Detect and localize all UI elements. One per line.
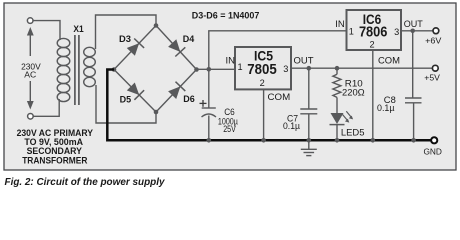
resistor R10 xyxy=(333,70,341,113)
svg-text:1: 1 xyxy=(349,26,354,36)
AC source arrow (double-headed) xyxy=(27,27,34,110)
+5V rail from IC5 OUT xyxy=(291,67,433,69)
svg-text:COM: COM xyxy=(378,55,400,66)
wire: secondary top to bridge top node xyxy=(96,15,157,49)
svg-text:LED5: LED5 xyxy=(341,126,365,137)
svg-text:D6: D6 xyxy=(183,94,195,104)
node dot R10 tap xyxy=(335,66,340,71)
svg-text:D4: D4 xyxy=(183,34,195,44)
transformer X1 secondary coil xyxy=(84,47,96,86)
thick ground bus xyxy=(107,70,431,141)
IC5 box xyxy=(235,47,291,89)
svg-text:IN: IN xyxy=(226,56,236,66)
svg-text:220Ω: 220Ω xyxy=(342,88,365,98)
svg-text:25V: 25V xyxy=(223,124,236,134)
capacitor C7 xyxy=(300,70,317,139)
svg-text:C6: C6 xyxy=(224,107,235,117)
node dot unregulated xyxy=(207,67,212,72)
svg-text:AC: AC xyxy=(24,70,36,80)
svg-text:OUT: OUT xyxy=(294,56,315,66)
C6 plus sign xyxy=(200,100,207,107)
svg-text:TRANSFORMER: TRANSFORMER xyxy=(22,155,87,165)
svg-text:2: 2 xyxy=(369,39,374,49)
wire IC6 COM to ground rail xyxy=(372,50,374,139)
wire: top-left terminal to primary top xyxy=(33,21,60,40)
wire: riser to IC6 IN xyxy=(209,31,347,70)
diode D4 xyxy=(168,39,185,56)
svg-text:+6V: +6V xyxy=(425,35,441,45)
terminal +6V xyxy=(433,28,439,34)
capacitor C8 xyxy=(405,32,422,139)
+6V rail from IC6 OUT xyxy=(401,30,433,32)
diode D5 xyxy=(127,83,144,100)
diode D3 xyxy=(127,39,144,56)
node dot C8 tap xyxy=(410,29,415,34)
wire: bridge right node to IC5 IN xyxy=(197,68,236,70)
capacitor C6 xyxy=(202,71,217,139)
svg-text:3: 3 xyxy=(283,64,288,74)
svg-text:D3: D3 xyxy=(119,34,131,44)
LED5 xyxy=(330,111,354,139)
svg-text:D5: D5 xyxy=(120,94,132,104)
svg-text:COM: COM xyxy=(268,91,291,102)
svg-text:0.1µ: 0.1µ xyxy=(283,121,300,131)
svg-text:7806: 7806 xyxy=(359,24,388,41)
wire IC5 COM to ground rail xyxy=(263,89,265,139)
svg-text:2: 2 xyxy=(260,78,265,88)
svg-text:OUT: OUT xyxy=(404,19,424,29)
bridge wires (diamond) xyxy=(114,26,197,113)
wire: secondary bottom to bridge bottom node xyxy=(96,85,156,123)
svg-text:+5V: +5V xyxy=(424,73,440,83)
node dots bridge xyxy=(112,23,199,114)
diode D6 xyxy=(168,82,185,99)
terminal +5V xyxy=(432,65,438,71)
transformer core xyxy=(75,35,79,105)
transformer X1 primary coil xyxy=(57,38,70,101)
svg-text:0.1µ: 0.1µ xyxy=(377,103,395,113)
label transformer description xyxy=(17,128,94,165)
ground symbol (under C7) xyxy=(301,141,317,156)
svg-text:1: 1 xyxy=(237,62,242,72)
IC6 box xyxy=(347,10,402,50)
svg-text:X1: X1 xyxy=(73,24,83,34)
node dot C7 tap xyxy=(307,66,312,71)
terminal GND xyxy=(431,137,437,143)
ground rail junction dots xyxy=(207,138,416,143)
svg-text:3: 3 xyxy=(394,27,399,37)
svg-text:GND: GND xyxy=(423,147,442,157)
terminal: AC input bottom xyxy=(28,114,34,120)
svg-text:7805: 7805 xyxy=(247,61,277,78)
svg-text:Fig. 2: Circuit of the power s: Fig. 2: Circuit of the power supply xyxy=(5,177,165,188)
svg-text:D3-D6 = 1N4007: D3-D6 = 1N4007 xyxy=(192,10,260,20)
wire: bottom-left terminal to primary bottom xyxy=(33,99,59,116)
terminal: AC input top xyxy=(27,18,33,24)
svg-text:IN: IN xyxy=(335,19,345,29)
